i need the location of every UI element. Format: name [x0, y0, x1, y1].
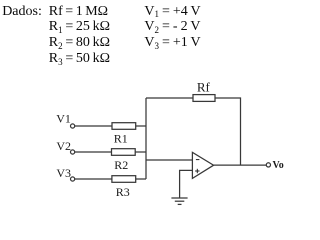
svg-text:R2: R2 [114, 158, 128, 172]
svg-text:V3: V3 [56, 166, 71, 180]
svg-text:Rf: Rf [197, 79, 211, 94]
svg-text:V1: V1 [56, 111, 71, 125]
svg-text:R3: R3 [116, 185, 130, 199]
svg-text:Vo: Vo [273, 160, 284, 171]
svg-text:V2: V2 [56, 139, 71, 153]
svg-text:R1: R1 [114, 132, 128, 146]
